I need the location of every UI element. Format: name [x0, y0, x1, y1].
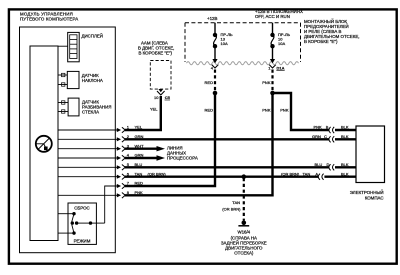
wire: bus to tilt sensor lower [58, 84, 67, 86]
wire: bus to glass sensor upper [58, 102, 68, 104]
fuse block connector chevron pin 4 [212, 65, 219, 68]
wire: bus lead to pin 6 [58, 176, 119, 178]
fuse block dashed box [185, 23, 301, 62]
svg-text:D1A: D1A [277, 65, 285, 70]
TAN ground wire label [222, 200, 241, 212]
ground W16/4 label [221, 230, 267, 256]
wire: WHT pin 3 data line [125, 147, 158, 149]
svg-text:TAN: TAN [303, 171, 311, 176]
fuse 13 10A [212, 23, 217, 64]
svg-text:КОМПАС: КОМПАС [365, 195, 384, 200]
pin 2 number and GRN wire label [127, 134, 144, 139]
svg-text:ЭЛЕКТРОННЫЙ: ЭЛЕКТРОННЫЙ [350, 190, 384, 195]
svg-text:GRN: GRN [312, 134, 321, 139]
dashed PNK wire from fuse block [271, 70, 273, 92]
wire: bus lead to pin 1 [58, 129, 119, 131]
connector C5 terminal arrow [158, 89, 163, 92]
node +12V in OFF ACC RUN [255, 9, 303, 19]
svg-text:СТЕКЛА: СТЕКЛА [82, 110, 99, 115]
reset/mode switch box [68, 203, 96, 244]
pin 4 number and GRN wire label [127, 153, 144, 158]
processor data lines label [167, 145, 198, 160]
compass pin C wire labels GRN C BLK [312, 134, 349, 139]
AAM location label [138, 41, 174, 56]
splice node on TAN ground wire [242, 174, 247, 179]
fuse block connector chevron pin 1 D1A [269, 65, 276, 68]
svg-text:A: A [315, 171, 318, 176]
pin 6 number and TAN (OR BRN) wire label [127, 171, 167, 176]
svg-text:B: B [326, 125, 329, 130]
wire: common node to riser [91, 222, 105, 224]
svg-text:OFF, ACC И RUN: OFF, ACC И RUN [255, 14, 290, 19]
switch S1 blade [72, 214, 74, 222]
splice node on RED wire [213, 91, 218, 96]
terminal tick on tilt sensor lower wire [62, 83, 65, 86]
wire: PNK branch to compass pin B [273, 93, 330, 130]
wire: GRN pin 2 to compass pin C [125, 138, 329, 140]
compass pin A wire labels (OR BRN) TAN A BLK [281, 171, 349, 176]
data line arrow on GRN wire [157, 155, 166, 160]
inline connector on compass pin B wire [329, 127, 334, 133]
svg-text:В КОРОБКЕ "Е"): В КОРОБКЕ "Е") [139, 51, 173, 56]
data line arrow on WHT wire [157, 146, 166, 151]
svg-text:В КОРОБКЕ "Е"): В КОРОБКЕ "Е") [304, 39, 338, 44]
svg-text:W16/4: W16/4 [237, 230, 250, 235]
wire: bus to glass sensor lower [58, 111, 68, 113]
photocell R1 symbol [36, 136, 52, 152]
wire: bus lead to pin 4 [58, 157, 119, 159]
switch S2 blade [72, 225, 74, 234]
wire: bus lead to pin 2 [58, 138, 119, 140]
pin 8 number and PNK wire label [127, 190, 143, 195]
svg-text:RED: RED [205, 80, 214, 85]
svg-text:BLK: BLK [341, 125, 349, 130]
switch S1 reset contact node [72, 212, 75, 215]
wire: bus to tilt sensor upper [58, 74, 67, 76]
wire: switch common run [77, 222, 91, 224]
splice node on PNK wire [270, 91, 275, 96]
module connector chevrons pins 1-8 [122, 127, 125, 198]
svg-text:C: C [324, 134, 327, 139]
svg-text:10А: 10А [221, 41, 228, 46]
inline connector on compass pin D wire [329, 164, 334, 170]
svg-text:10: 10 [154, 95, 159, 100]
wire: YEL pin 1 to connector C5 [125, 96, 161, 130]
wire: switch riser to pin 7 lead [105, 186, 119, 223]
svg-text:PNK: PNK [262, 108, 271, 113]
svg-text:НАКЛОНА: НАКЛОНА [82, 78, 103, 83]
svg-text:PNK: PNK [280, 108, 289, 113]
module internal bus rectangle [30, 46, 58, 241]
svg-text:СБРОС: СБРОС [74, 206, 89, 211]
wire: BLK to compass pin C [335, 138, 356, 140]
svg-text:+12В: +12В [207, 16, 217, 21]
inline connector on compass pin C wire [329, 136, 334, 142]
connector C5 chevron [157, 91, 165, 95]
pin 1 number and YEL wire label [127, 125, 143, 130]
svg-text:BLU: BLU [315, 162, 323, 167]
wire: PNK pin 8 up to fuse 10 [125, 95, 273, 195]
electronic compass U2 box [356, 126, 385, 183]
dashed RED wire from fuse block [214, 70, 216, 92]
tilt sensor B1 box [67, 71, 79, 88]
module U1 label: trip computer control module [20, 12, 78, 22]
svg-text:ОТСЕКА): ОТСЕКА) [234, 251, 254, 256]
svg-text:(OR BRN): (OR BRN) [222, 207, 241, 212]
wire: bus to display [58, 45, 68, 47]
AAM dashed box [150, 61, 171, 90]
terminal tick on tilt sensor upper wire [62, 73, 65, 76]
svg-text:ПУТЕВОГО КОМПЬЮТЕРА: ПУТЕВОГО КОМПЬЮТЕРА [20, 17, 78, 22]
svg-text:TAN: TAN [232, 200, 240, 205]
wire: bus lead to pin 5 [58, 166, 119, 168]
switch common right node [89, 221, 92, 224]
svg-text:BLK: BLK [341, 162, 349, 167]
glass breakage sensor B2 box [68, 98, 79, 116]
wire: bus to mode switch contact [58, 232, 74, 234]
wire: BLK to compass pin A [324, 175, 356, 177]
torn edge of fuse block [187, 62, 299, 65]
svg-text:BLK: BLK [341, 134, 349, 139]
switch S2 mode contact node [72, 231, 75, 234]
svg-text:C5: C5 [165, 95, 171, 100]
wire: bus lead to pin 8 [58, 194, 119, 196]
switch common middle node [75, 221, 78, 224]
svg-text:ПРОЦЕССОРА: ПРОЦЕССОРА [167, 155, 198, 160]
svg-text:RED: RED [205, 108, 214, 113]
pin 3 number and WHT wire label [127, 143, 144, 148]
dashed TAN wire to ground [243, 178, 245, 221]
svg-text:YEL: YEL [150, 107, 158, 112]
module connector terminal arrows pins 1-8 [117, 128, 121, 197]
svg-text:PNK: PNK [314, 125, 323, 130]
wire: bus to reset switch contact [58, 213, 74, 215]
switch common left node [71, 221, 74, 224]
terminal tick on glass sensor upper wire [62, 101, 65, 104]
wire: BLU pin 5 to compass pin D [125, 166, 329, 168]
tilt sensor label [82, 73, 103, 83]
wire: bus lead to pin 3 [58, 148, 119, 150]
svg-text:10А: 10А [278, 41, 285, 46]
electronic compass label [350, 190, 384, 200]
svg-text:РЕЖИМ: РЕЖИМ [74, 239, 91, 244]
inline connector on compass pin A wire [318, 174, 323, 180]
svg-text:BLK: BLK [341, 171, 349, 176]
svg-text:(OR BRN): (OR BRN) [281, 171, 300, 176]
svg-text:PNK: PNK [262, 80, 271, 85]
display DS1 [68, 32, 80, 61]
terminal tick on glass sensor lower wire [62, 110, 65, 113]
wire: BLK to compass pin B [335, 129, 356, 131]
compass pin B wire labels PNK B BLK [314, 125, 349, 130]
wire: RED pin 7 up to fuse 13 [125, 95, 215, 186]
wire: TAN pin 6 to compass pin A [125, 175, 318, 177]
fuse and relay panel note [304, 19, 359, 44]
fuse 10 value label [278, 32, 291, 46]
fuse 10 10A [270, 23, 275, 64]
pin 7 number and RED wire label [127, 181, 143, 186]
module U1 box [20, 27, 116, 253]
svg-text:ДИСПЛЕЙ: ДИСПЛЕЙ [82, 34, 103, 39]
fuse 13 value label [221, 32, 234, 46]
compass pin D wire labels BLU D BLK [315, 162, 349, 167]
wire: BLK to compass pin D [335, 166, 356, 168]
svg-text:D: D [327, 162, 330, 167]
ground W16/4 [238, 221, 249, 226]
wire: GRN pin 4 data line [125, 157, 158, 159]
pin 5 number and BLU wire label [127, 162, 143, 167]
glass breakage sensor label [82, 100, 111, 115]
